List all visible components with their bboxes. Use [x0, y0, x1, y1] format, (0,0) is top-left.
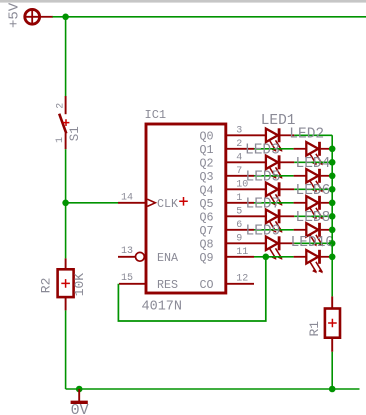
svg-text:LED8: LED8	[296, 210, 331, 226]
wire LED1 cathode to rail	[280, 134, 332, 136]
svg-text:1: 1	[236, 193, 242, 204]
svg-text:+5V: +5V	[7, 2, 23, 28]
IC1 pin 12 CO stub	[226, 283, 254, 285]
LED4	[294, 169, 333, 193]
wire +5V pin to node A	[53, 16, 66, 18]
supply 0V ground symbol	[71, 389, 88, 402]
svg-text:LED2: LED2	[289, 126, 324, 142]
wire RES feedback net	[118, 257, 265, 321]
junction LED3 cathode node	[329, 159, 336, 166]
junction CLK node	[62, 200, 69, 207]
svg-text:7: 7	[236, 166, 242, 177]
wire LED3 cathode to rail	[280, 161, 332, 163]
LED6	[294, 196, 333, 220]
supply +5V symbol	[25, 9, 53, 24]
wire LED7 cathode to rail	[280, 215, 332, 217]
junction LED9 cathode node	[329, 240, 336, 247]
IC1 origin cross	[179, 197, 188, 206]
resistor R2	[58, 258, 74, 310]
LED8	[294, 223, 333, 247]
wire Q5 to LED6 anode	[254, 202, 294, 204]
junction LED10 cathode node	[329, 253, 336, 260]
svg-text:LED9: LED9	[246, 223, 281, 239]
LED7	[266, 209, 283, 233]
svg-text:Q9: Q9	[199, 251, 213, 265]
svg-text:LED10: LED10	[291, 235, 335, 251]
wire LED5 cathode to rail	[280, 188, 332, 190]
svg-text:13: 13	[121, 246, 133, 257]
wire S1 to CLK node	[65, 149, 67, 203]
LED3	[266, 155, 283, 179]
svg-text:Q0: Q0	[199, 130, 213, 144]
svg-text:LED7: LED7	[246, 196, 281, 212]
svg-text:3: 3	[236, 125, 242, 136]
LED5	[266, 182, 283, 206]
IC1 pin 6 Q7 stub	[226, 229, 254, 231]
svg-text:4: 4	[236, 152, 242, 163]
svg-text:2: 2	[236, 139, 242, 150]
junction LED2 cathode node	[329, 146, 336, 153]
svg-text:14: 14	[121, 193, 133, 204]
wire R1 to 0V rail	[331, 352, 333, 389]
LED2	[294, 142, 333, 166]
IC1 pin 10 Q4 stub	[226, 188, 266, 190]
wire Q3 to LED4 anode	[254, 175, 294, 177]
junction LED4 cathode node	[329, 173, 336, 180]
svg-text:2: 2	[56, 103, 67, 109]
LED1	[266, 128, 283, 152]
junction 0V node	[76, 386, 83, 393]
IC1 pin 14 CLK stub	[118, 202, 146, 204]
junction LED5 cathode node	[329, 186, 336, 193]
svg-text:CLK: CLK	[157, 197, 178, 211]
svg-text:5: 5	[236, 206, 242, 217]
wire CLK node to IC1 pin 14	[66, 202, 118, 204]
wire R2 to 0V rail	[65, 310, 67, 389]
svg-text:ENA: ENA	[157, 251, 179, 265]
LED10	[294, 250, 333, 274]
wire LED9 cathode to rail	[280, 242, 332, 244]
wire Q9 to LED10 anode	[254, 256, 294, 258]
junction LED8 cathode node	[329, 227, 336, 234]
svg-text:Q5: Q5	[199, 197, 213, 211]
IC U1 4017N body	[146, 124, 226, 293]
IC1 pin 15 RES stub	[119, 283, 146, 285]
svg-text:RES: RES	[157, 278, 178, 292]
svg-text:LED4: LED4	[296, 156, 331, 172]
wire LED cathode rail to R1	[331, 135, 333, 296]
junction LED6 cathode node	[329, 200, 336, 207]
resistor R1	[325, 296, 340, 351]
IC1 pin 1 Q5 stub	[226, 202, 254, 204]
junction LED7 cathode node	[329, 213, 336, 220]
svg-text:Q8: Q8	[199, 238, 213, 252]
svg-text:Q7: Q7	[199, 224, 213, 238]
svg-text:10K: 10K	[72, 273, 87, 297]
IC1 pin 11 Q9 stub	[226, 256, 254, 258]
svg-text:15: 15	[121, 273, 133, 284]
svg-text:9: 9	[236, 233, 242, 244]
svg-text:Q6: Q6	[199, 211, 213, 225]
wire top +5V rail	[66, 16, 366, 18]
junction node A	[62, 13, 69, 20]
svg-text:12: 12	[236, 274, 248, 285]
wire CLK node down to R2	[65, 203, 67, 259]
clock wedge on pin CLK	[147, 199, 155, 206]
svg-text:Q2: Q2	[199, 157, 213, 171]
svg-text:S1: S1	[68, 126, 82, 141]
IC1 pin 5 Q6 stub	[226, 215, 266, 217]
svg-text:0V: 0V	[71, 402, 89, 415]
wire Q1 to LED2 anode	[254, 148, 294, 150]
IC1 pin 4 Q2 stub	[226, 161, 266, 163]
IC1 pin 2 Q1 stub	[226, 148, 254, 150]
svg-text:1: 1	[55, 137, 66, 143]
wire node A down to S1	[65, 17, 67, 96]
svg-text:LED6: LED6	[296, 183, 331, 199]
svg-text:CO: CO	[199, 278, 213, 292]
svg-text:11: 11	[236, 247, 248, 258]
wire bottom 0V rail	[66, 388, 360, 390]
switch S1	[59, 96, 69, 149]
IC1 pin 7 Q3 stub	[226, 175, 254, 177]
svg-text:IC1: IC1	[145, 108, 167, 122]
svg-text:Q1: Q1	[199, 143, 213, 157]
svg-text:6: 6	[236, 220, 242, 231]
LED9	[266, 236, 283, 260]
svg-text:R2: R2	[39, 278, 54, 294]
IC1 pin 13 ENA stub with bubble	[118, 252, 144, 261]
junction RES-Q9 node	[263, 253, 270, 260]
IC1 pin 3 Q0 stub	[226, 134, 266, 136]
svg-text:Q3: Q3	[199, 170, 213, 184]
wire Q7 to LED8 anode	[254, 229, 294, 231]
svg-text:4017N: 4017N	[142, 300, 183, 315]
svg-text:Q4: Q4	[199, 184, 213, 198]
svg-text:LED3: LED3	[245, 142, 280, 158]
IC1 pin 9 Q8 stub	[226, 242, 266, 244]
svg-text:LED5: LED5	[246, 169, 281, 185]
junction R1-0V node	[329, 386, 336, 393]
svg-text:R1: R1	[307, 321, 322, 337]
